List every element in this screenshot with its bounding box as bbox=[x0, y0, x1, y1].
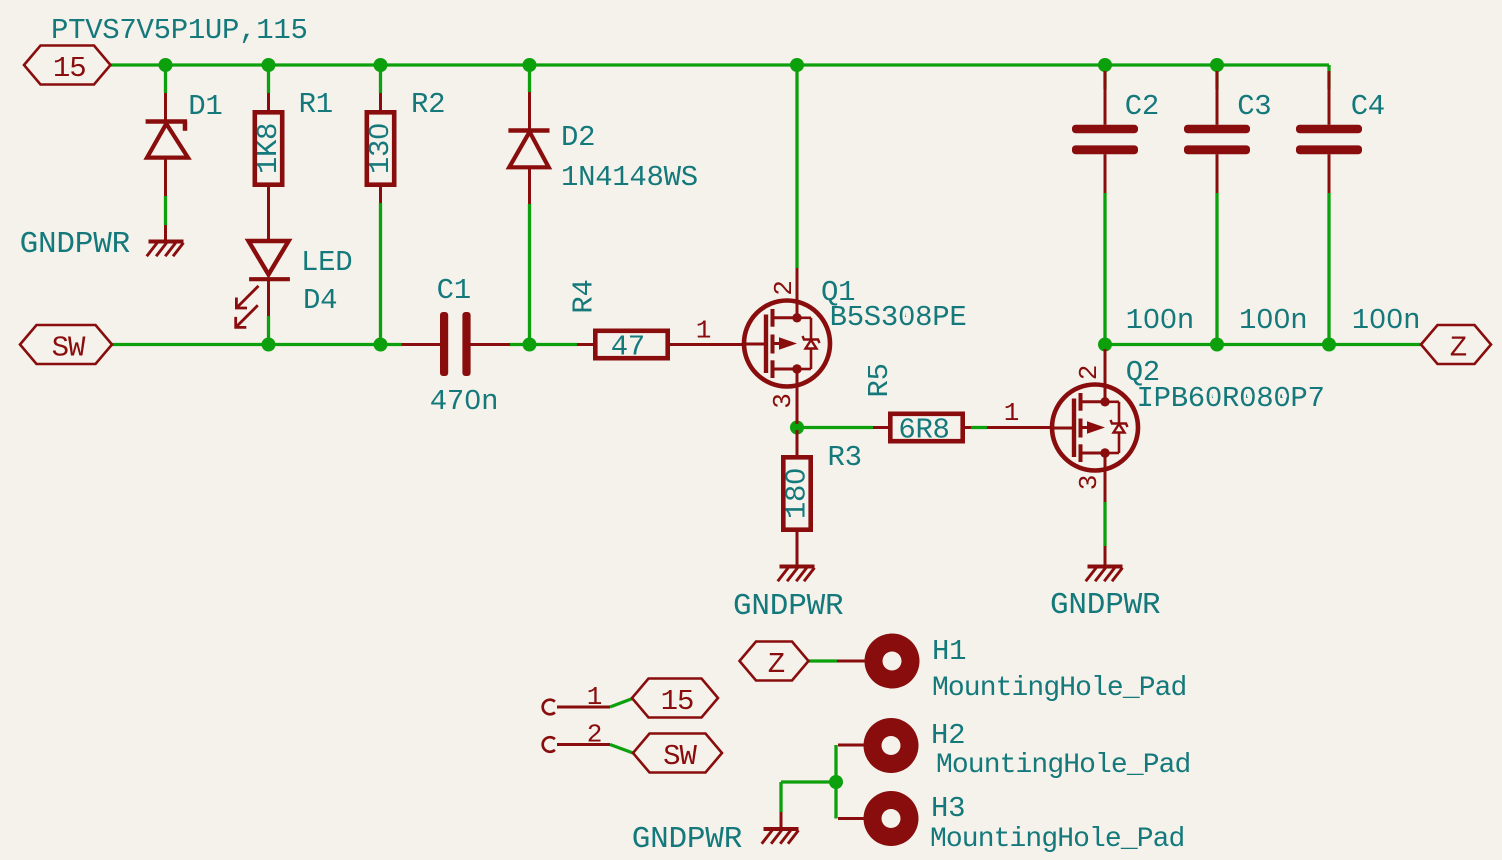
svg-text:100n: 100n bbox=[1239, 304, 1307, 337]
svg-text:R4: R4 bbox=[568, 279, 601, 313]
svg-text:1K8: 1K8 bbox=[252, 123, 285, 174]
wire C4 bottom bbox=[1327, 193, 1330, 345]
wire C2 top bbox=[1103, 65, 1106, 89]
svg-text:Z: Z bbox=[1450, 332, 1467, 365]
resistor R1 bottom pin to LED bbox=[267, 187, 270, 241]
wire C2 bottom bbox=[1103, 193, 1106, 345]
mounting hole H2 bbox=[864, 718, 919, 773]
wire Q2 source to ground bbox=[1103, 502, 1106, 546]
svg-text:2: 2 bbox=[587, 720, 602, 750]
svg-text:R1: R1 bbox=[299, 88, 333, 121]
wire C1 to R4 bbox=[510, 343, 577, 346]
svg-text:B5S308PE: B5S308PE bbox=[830, 301, 967, 334]
wire Z to H1 bbox=[809, 659, 838, 662]
net label 15 (top left) bbox=[24, 46, 111, 86]
resistor R3 bbox=[783, 457, 810, 529]
resistor R4 bbox=[595, 331, 667, 358]
wire H2 to H3 vertical bbox=[834, 745, 837, 819]
diode D1 top pin bbox=[164, 93, 167, 122]
junction SW net x=529.5 bbox=[523, 338, 537, 352]
capacitor C2 bbox=[1072, 125, 1138, 154]
net label Z (bottom) bbox=[740, 642, 809, 682]
svg-text:C4: C4 bbox=[1351, 90, 1385, 123]
resistor R5 left pin bbox=[873, 426, 889, 429]
resistor R3 bottom pin bbox=[796, 532, 799, 567]
net label SW (left) bbox=[20, 325, 112, 365]
diode D1 bbox=[146, 122, 188, 158]
junction top bus x=380.5 bbox=[374, 58, 388, 72]
wire pin1 to label 15 diagonal bbox=[610, 699, 633, 708]
capacitor C4 bbox=[1296, 125, 1362, 154]
connector pin 2 lead bbox=[557, 743, 610, 746]
capacitor C4 top pin bbox=[1328, 71, 1331, 125]
resistor R5 right pin bbox=[965, 426, 971, 429]
junction Z net x=1329 bbox=[1322, 338, 1336, 352]
svg-text:H3: H3 bbox=[931, 792, 965, 825]
zero glyph patches (cosmetic) bbox=[376, 128, 1398, 480]
junction SW net x=380.5 bbox=[374, 338, 388, 352]
junction top bus x=165.5 bbox=[159, 58, 173, 72]
ground GNDPWR (D1) bbox=[147, 242, 184, 257]
resistor R5 bbox=[890, 414, 962, 441]
wire R2 bottom bbox=[379, 203, 382, 345]
svg-text:R2: R2 bbox=[411, 88, 445, 121]
svg-text:1: 1 bbox=[696, 316, 711, 346]
wire LED D4 bottom bbox=[267, 316, 270, 345]
junction top bus x=797 bbox=[790, 58, 804, 72]
wire top-right corner down to C4 bbox=[1327, 65, 1330, 89]
capacitor C1 bbox=[440, 312, 471, 376]
junction top bus x=529.5 bbox=[523, 58, 537, 72]
svg-text:47: 47 bbox=[611, 331, 645, 364]
mounting hole H1 bbox=[865, 634, 920, 689]
wire D2 bottom bbox=[528, 204, 531, 345]
svg-text:D4: D4 bbox=[303, 284, 337, 317]
H3 pin bbox=[838, 817, 864, 820]
svg-text:GNDPWR: GNDPWR bbox=[1050, 588, 1160, 623]
transistor Q1 source pin bbox=[796, 369, 799, 424]
transistor Q1 drain pin bbox=[796, 268, 799, 318]
svg-text:6R8: 6R8 bbox=[898, 414, 949, 447]
svg-text:D2: D2 bbox=[561, 121, 595, 154]
svg-text:3: 3 bbox=[768, 394, 798, 409]
svg-text:1: 1 bbox=[1004, 398, 1019, 428]
svg-text:GNDPWR: GNDPWR bbox=[733, 589, 843, 624]
capacitor C3 bbox=[1184, 125, 1250, 154]
svg-text:IPB60R080P7: IPB60R080P7 bbox=[1137, 382, 1325, 415]
wire Q1 drain vertical bbox=[795, 65, 798, 268]
Q2 gate pin bbox=[987, 426, 1052, 429]
svg-text:1N4148WS: 1N4148WS bbox=[561, 161, 698, 194]
junction SW net x=268.5 bbox=[262, 338, 276, 352]
resistor R2 bottom pin bbox=[379, 187, 382, 203]
svg-text:GNDPWR: GNDPWR bbox=[20, 227, 130, 262]
resistor R3 top pin bbox=[796, 430, 799, 455]
svg-text:1: 1 bbox=[587, 682, 602, 712]
GNDPWR pin under D1 bbox=[164, 225, 167, 242]
svg-text:C3: C3 bbox=[1237, 90, 1271, 123]
wire R2 top bbox=[379, 65, 382, 93]
diode D2 bottom pin bbox=[528, 167, 531, 204]
svg-text:470n: 470n bbox=[430, 385, 498, 418]
diode D2 bbox=[508, 131, 549, 168]
junction top bus x=1217 bbox=[1210, 58, 1224, 72]
diode D2 top pin bbox=[528, 92, 531, 131]
capacitor C2 top pin bbox=[1104, 71, 1107, 125]
transistor Q1 B5S308PE bbox=[744, 301, 830, 387]
wire C3 top bbox=[1215, 65, 1218, 89]
transistor Q2 IPB60R080P7 bbox=[1052, 385, 1138, 471]
transistor Q2 drain pin bbox=[1104, 349, 1107, 402]
mounting hole H3 bbox=[864, 791, 919, 846]
svg-text:MountingHole_Pad: MountingHole_Pad bbox=[930, 824, 1184, 855]
ground GNDPWR (mounting holes) bbox=[762, 829, 799, 844]
svg-text:100n: 100n bbox=[1126, 304, 1194, 337]
H2 pin bbox=[838, 744, 864, 747]
LED D4 bottom pin bbox=[267, 279, 270, 316]
resistor R1 bbox=[255, 112, 282, 184]
svg-text:2: 2 bbox=[769, 281, 799, 296]
resistor R4 right pin / Q1 gate pin bbox=[668, 343, 744, 346]
svg-text:PTVS7V5P1UP,115: PTVS7V5P1UP,115 bbox=[51, 14, 308, 47]
junction Q1 source node bbox=[790, 421, 804, 435]
svg-text:SW: SW bbox=[663, 740, 697, 773]
resistor R4 left pin bbox=[577, 343, 595, 346]
wire Z output horizontal bbox=[1105, 343, 1421, 346]
capacitor C1 left pin bbox=[402, 343, 441, 346]
svg-text:R5: R5 bbox=[863, 363, 896, 397]
svg-text:Z: Z bbox=[768, 648, 785, 681]
wire D2 top bbox=[528, 65, 531, 92]
svg-text:15: 15 bbox=[53, 52, 86, 85]
junction mounting hole ground node bbox=[829, 775, 843, 789]
wire C3 bottom bbox=[1215, 193, 1218, 345]
capacitor C3 top pin bbox=[1216, 71, 1219, 125]
svg-text:H2: H2 bbox=[931, 719, 965, 752]
diode D1 bottom pin bbox=[164, 158, 167, 196]
junction Z net x=1105 bbox=[1098, 338, 1112, 352]
wire R1 top bbox=[267, 65, 270, 93]
transistor Q2 source pin bbox=[1104, 453, 1107, 502]
svg-text:MountingHole_Pad: MountingHole_Pad bbox=[936, 750, 1190, 781]
svg-text:100n: 100n bbox=[1352, 304, 1420, 337]
ground GNDPWR (Q2) bbox=[1086, 567, 1123, 582]
capacitor C1 right pin bbox=[471, 343, 511, 346]
ground GNDPWR (R3) bbox=[778, 567, 815, 582]
H1 pin bbox=[837, 660, 865, 663]
wire R5 to Q2 gate bbox=[971, 426, 987, 429]
svg-text:SW: SW bbox=[52, 332, 86, 365]
resistor R2 bbox=[367, 112, 394, 184]
net label Z (right) bbox=[1421, 325, 1491, 365]
connector pin 2 circle bbox=[543, 737, 555, 752]
wire pin2 to label SW diagonal bbox=[610, 745, 633, 754]
svg-text:15: 15 bbox=[661, 685, 694, 718]
wire D1 top bbox=[164, 65, 167, 93]
resistor R1 top pin bbox=[267, 93, 270, 110]
svg-text:GNDPWR: GNDPWR bbox=[632, 822, 742, 857]
svg-text:MountingHole_Pad: MountingHole_Pad bbox=[932, 673, 1186, 704]
net label SW (connector) bbox=[633, 734, 722, 774]
net label 15 (connector) bbox=[632, 679, 718, 719]
svg-text:D1: D1 bbox=[188, 90, 222, 123]
junction top bus x=268.5 bbox=[262, 58, 276, 72]
svg-text:H1: H1 bbox=[932, 635, 966, 668]
GNDPWR pin under Q2 bbox=[1104, 546, 1107, 567]
svg-text:2: 2 bbox=[1074, 366, 1104, 381]
junction top bus x=1105 bbox=[1098, 58, 1112, 72]
capacitor C3 bottom pin bbox=[1216, 154, 1219, 193]
junction Z net x=1217 bbox=[1210, 338, 1224, 352]
connector pin 1 circle bbox=[543, 700, 555, 715]
wire GNDPWR vertical bbox=[779, 782, 782, 812]
GNDPWR pin (mounting holes) bbox=[780, 812, 783, 829]
svg-text:R3: R3 bbox=[828, 441, 862, 474]
wire junction to GNDPWR horizontal bbox=[781, 780, 836, 783]
wire D1 to ground bbox=[164, 196, 167, 225]
capacitor C4 bottom pin bbox=[1328, 154, 1331, 193]
capacitor C2 bottom pin bbox=[1104, 154, 1107, 193]
wire SW horizontal bbox=[112, 343, 402, 346]
svg-text:C2: C2 bbox=[1125, 90, 1159, 123]
LED D4 bbox=[236, 241, 290, 327]
svg-text:C1: C1 bbox=[437, 274, 471, 307]
wire Q1 source to R5 bbox=[797, 426, 873, 429]
svg-text:LED: LED bbox=[301, 246, 352, 279]
resistor R2 top pin bbox=[379, 93, 382, 110]
wire top power bus bbox=[111, 63, 1329, 66]
connector pin 1 lead bbox=[557, 706, 610, 709]
svg-text:3: 3 bbox=[1074, 476, 1104, 491]
